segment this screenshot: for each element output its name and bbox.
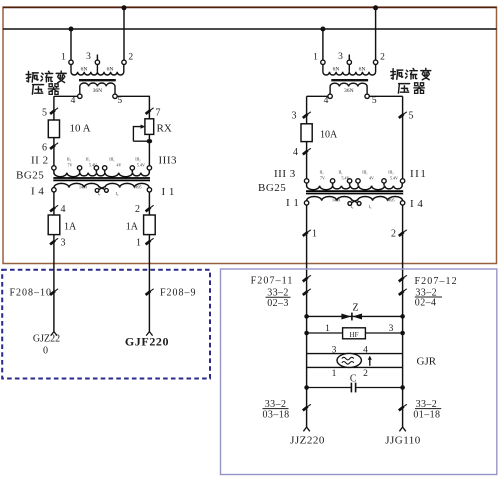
svg-text:36N: 36N: [344, 88, 354, 94]
filter HF body: [343, 328, 366, 339]
svg-text:F208–10: F208–10: [9, 288, 52, 299]
svg-text:GJZ22: GJZ22: [33, 334, 60, 345]
svg-text:I 4: I 4: [410, 198, 423, 210]
svg-text:3: 3: [338, 52, 343, 62]
svg-text:III₁: III₁: [362, 170, 368, 175]
fuse FU4 10A body: [301, 124, 312, 142]
wire bus L1 to choke T2 terminal 2 (right): [375, 8, 377, 60]
rheostat RX body: [145, 119, 154, 135]
svg-text:7V: 7V: [320, 176, 325, 181]
svg-text:III3: III3: [159, 155, 178, 167]
svg-text:4: 4: [61, 204, 66, 215]
test point 2: [146, 205, 154, 211]
svg-text:4: 4: [71, 96, 76, 106]
svg-text:II₁: II₁: [86, 157, 91, 162]
test point 1: [146, 238, 154, 244]
svg-text:III₂: III₂: [135, 157, 141, 162]
test point 1 (right circuit): [303, 230, 311, 236]
wire rung GJR bottom: [307, 366, 403, 368]
BG25 right secondary end terminal circles: [304, 201, 404, 205]
outer brown frame box: [3, 7, 497, 264]
BG25 right primary terminal circles: [304, 179, 404, 183]
dashed blue box (left lower): [2, 270, 210, 379]
wire rung for suppressor Z: [307, 315, 403, 317]
wire rung for capacitor C: [307, 387, 351, 389]
svg-text:5.4V: 5.4V: [390, 176, 398, 181]
test point 4: [50, 205, 58, 211]
svg-text:II₂: II₂: [67, 157, 72, 162]
wire bus L2 to choke T2 terminal 1 (right): [322, 29, 324, 60]
svg-text:1: 1: [136, 238, 141, 249]
svg-text:II₁: II₁: [338, 170, 343, 175]
svg-text:5.4V: 5.4V: [342, 176, 350, 181]
test point 3 (right circuit): [303, 112, 311, 118]
test point 5: [50, 108, 58, 114]
wire BG25R I4 down into relay box: [402, 205, 404, 427]
svg-text:2: 2: [135, 204, 140, 215]
svg-text:JJG110: JJG110: [385, 435, 421, 447]
wire choke T1 pin4 to left branch: [54, 95, 78, 97]
svg-text:I 1: I 1: [286, 197, 299, 209]
BG25 left winding designator labels: [16, 155, 177, 198]
choke T2 secondary terminal circles pins 4,5: [328, 94, 369, 98]
BG25 left secondary winding right half: [105, 183, 149, 187]
BG25 left secondary crossover X: [97, 186, 106, 190]
choke T2 secondary winding 36N: [330, 83, 367, 94]
second bus wire (net L2): [3, 28, 497, 30]
wire choke T1 pin5 to right branch: [117, 95, 150, 97]
svg-text:III₁: III₁: [109, 157, 115, 162]
wire RX wiper to bottom node: [133, 140, 149, 142]
choke T2 winding value labels 6N 6N 36N: [333, 66, 366, 94]
junction HF left: [304, 331, 309, 336]
wire right branch down to BG25R pin II1: [402, 96, 404, 178]
svg-text:3: 3: [332, 345, 337, 355]
svg-text:6N: 6N: [81, 66, 88, 72]
BG25 right secondary crossover X: [350, 200, 359, 204]
test point 33-2/02-4: [399, 289, 407, 295]
svg-text:I₃: I₃: [369, 204, 372, 209]
fuse FU1 10A body: [48, 120, 59, 138]
svg-text:4V: 4V: [117, 163, 122, 168]
junction HF right: [400, 331, 405, 336]
svg-text:6N: 6N: [333, 66, 340, 72]
svg-text:HF: HF: [350, 331, 359, 339]
BG25 right tiny winding labels: [319, 170, 398, 209]
choke T2 core: [331, 79, 368, 81]
test point F208-9: [146, 289, 154, 295]
test point F208-10: [50, 289, 58, 295]
svg-text:JJZ220: JJZ220: [290, 435, 325, 447]
BG25 left primary intermediate stems: [80, 170, 133, 173]
svg-text:5.4V: 5.4V: [89, 163, 97, 168]
fuse FU2 1A body: [48, 215, 60, 235]
wire right branch down to RX: [148, 96, 150, 119]
svg-text:II 2: II 2: [31, 155, 49, 167]
svg-text:GJF220: GJF220: [125, 335, 169, 349]
test point 7: [146, 108, 154, 114]
svg-text:1499: 1499: [79, 185, 87, 190]
choke T2 terminal circles pins 1,3,2: [321, 60, 378, 64]
junction node RX bottom: [147, 139, 153, 143]
svg-text:02–3: 02–3: [267, 298, 289, 309]
svg-text:BG25: BG25: [258, 182, 286, 194]
svg-text:1: 1: [332, 369, 337, 379]
choke transformer T2 (right) primary winding: [323, 65, 376, 75]
BG25 right secondary winding left half: [307, 196, 352, 200]
svg-text:I 1: I 1: [162, 186, 175, 198]
junction on top bus at x=124: [122, 5, 127, 10]
junction on top bus at x=375.6: [373, 5, 378, 10]
svg-text:2: 2: [380, 53, 385, 63]
svg-text:03–18: 03–18: [263, 410, 290, 421]
choke T1 center stem pin 3: [96, 65, 98, 72]
svg-text:5.4V: 5.4V: [137, 163, 145, 168]
wire choke T2 pin5 to right branch: [369, 95, 402, 97]
BG25 left secondary end terminal circles: [52, 188, 152, 192]
connector chevron JJZ220: [303, 427, 309, 431]
svg-text:BG25: BG25: [16, 169, 44, 181]
rheostat RX wiper arm with arrow: [133, 127, 141, 142]
svg-text:3: 3: [86, 52, 91, 62]
wire BG25R I1 down into relay box: [306, 205, 308, 427]
suppressor Z symbol: [341, 314, 351, 320]
solid blue relay box (right lower): [221, 269, 497, 475]
choke T1 core: [79, 79, 116, 81]
svg-text:5: 5: [372, 96, 377, 106]
svg-text:1A: 1A: [126, 222, 139, 233]
junction C left: [304, 385, 309, 390]
GJR pin labels 3 4 1 2: [332, 345, 369, 379]
svg-text:GJR: GJR: [417, 356, 437, 368]
wire choke T2 pin4 to left branch: [307, 95, 328, 97]
relay GJR actuation arrow: [369, 359, 371, 366]
svg-text:RX: RX: [157, 123, 172, 135]
svg-text:I₂: I₂: [351, 204, 354, 209]
svg-text:4: 4: [324, 96, 329, 106]
wire rung for filter HF: [307, 332, 403, 334]
svg-text:01–18: 01–18: [413, 409, 440, 420]
svg-text:7V: 7V: [68, 163, 73, 168]
relay GJR AC waves: [342, 357, 354, 364]
svg-text:II1: II1: [410, 168, 427, 180]
stub terminal 3 of choke T2: [348, 55, 350, 61]
stub terminal 3 of choke T1: [96, 55, 98, 61]
wire BG25 I1 down through 1A fuse to GJF220: [148, 192, 150, 332]
junction C right: [400, 385, 405, 390]
svg-text:10A: 10A: [320, 130, 338, 141]
transformer BG25 (right) primary winding row: [307, 183, 403, 190]
svg-text:F207–12: F207–12: [415, 276, 458, 287]
label 扼流变压器 (left): [26, 71, 66, 94]
svg-text:1499: 1499: [332, 198, 340, 203]
svg-text:1: 1: [61, 53, 66, 63]
BG25 right core bars: [306, 190, 403, 192]
test point F207-11: [303, 275, 311, 281]
junction on second bus at x=71: [69, 27, 74, 32]
svg-text:2: 2: [363, 369, 368, 379]
svg-text:0: 0: [43, 346, 48, 357]
test point 33-2/02-3: [303, 289, 311, 295]
wire BG25 I4 down through 1A fuse to GJZ220: [53, 192, 55, 332]
test point F207-12: [399, 275, 407, 281]
BG25 left tiny winding labels: [67, 157, 145, 196]
BG25 right secondary winding right half: [358, 197, 403, 201]
choke T1 secondary winding 36N: [80, 83, 115, 94]
svg-text:1495: 1495: [387, 198, 395, 203]
test point 33-2/01-18: [399, 404, 407, 410]
BG25 left core bars: [53, 177, 150, 179]
svg-text:7: 7: [156, 108, 161, 119]
svg-text:5: 5: [42, 108, 47, 119]
test point 2 (right circuit): [399, 230, 407, 236]
BG25 right primary intermediate stems: [333, 183, 384, 186]
svg-text:6N: 6N: [359, 66, 366, 72]
svg-text:F207–11: F207–11: [251, 276, 294, 287]
fuse FU3 1A body: [144, 215, 156, 235]
junction on second bus at x=322.9: [320, 27, 325, 32]
test point 33-2/03-18: [303, 404, 311, 410]
svg-text:1: 1: [325, 324, 330, 334]
test point 3: [50, 238, 58, 244]
junction Z right: [400, 314, 405, 319]
svg-text:III₂: III₂: [388, 170, 394, 175]
test point 5 (right circuit): [399, 112, 407, 118]
svg-text:33–2: 33–2: [267, 287, 289, 298]
svg-text:36N: 36N: [93, 88, 103, 94]
svg-text:I₃: I₃: [116, 191, 119, 196]
test point 4 (right circuit): [303, 148, 311, 154]
BG25 left secondary center tap circles: [95, 189, 108, 193]
svg-text:2: 2: [391, 229, 396, 240]
svg-text:C: C: [350, 374, 357, 385]
wire left branch down to BG25R pin III3: [306, 96, 308, 178]
svg-text:10 A: 10 A: [70, 123, 91, 135]
svg-text:1495: 1495: [134, 185, 142, 190]
test point 6: [50, 143, 58, 149]
wire left branch down to BG25 pin II2: [53, 96, 55, 165]
svg-text:3: 3: [61, 238, 66, 249]
connector chevron GJZ220: [51, 332, 57, 336]
wire bus L1 to choke T1 terminal 2 (left): [123, 8, 125, 60]
svg-text:2: 2: [128, 53, 133, 63]
svg-text:I 4: I 4: [31, 186, 44, 198]
svg-text:4: 4: [363, 345, 368, 355]
svg-text:1: 1: [312, 229, 317, 240]
transformer BG25 (left) primary winding row: [54, 170, 149, 177]
svg-text:02–4: 02–4: [415, 298, 437, 309]
svg-text:1: 1: [313, 53, 318, 63]
svg-text:Z: Z: [352, 302, 358, 313]
svg-text:III 3: III 3: [274, 168, 296, 180]
choke T2 center stem pin 3: [348, 65, 350, 72]
capacitor C plates: [350, 383, 352, 393]
BG25 left primary terminal circles: [52, 166, 152, 170]
svg-text:3: 3: [292, 111, 297, 122]
svg-text:II₂: II₂: [319, 170, 324, 175]
choke transformer T1 (left) primary winding: [71, 65, 124, 75]
svg-text:5: 5: [117, 96, 122, 106]
svg-text:4V: 4V: [369, 176, 374, 181]
choke T1 secondary terminal circles pins 4,5: [78, 94, 118, 98]
connector chevron GJF220: [146, 332, 152, 336]
svg-text:1A: 1A: [64, 222, 77, 233]
label 扼流变压器 (right): [391, 68, 431, 93]
wire RX bottom to BG25 pin III3: [148, 134, 150, 165]
relay GJR coil body: [337, 353, 361, 367]
svg-text:I₂: I₂: [98, 191, 101, 196]
choke T2 pin number labels: [313, 52, 385, 106]
choke T1 winding value labels 6N 6N 36N: [81, 66, 114, 94]
BG25 right winding designator labels: [258, 168, 427, 210]
svg-text:4: 4: [293, 147, 298, 158]
wire bus L2 to choke T1 terminal 1 (left): [70, 29, 72, 60]
svg-text:6: 6: [42, 143, 47, 154]
svg-text:5: 5: [409, 111, 414, 122]
top bus wire (net L1): [3, 7, 497, 9]
BG25 left secondary winding left half: [54, 183, 99, 187]
connector chevron JJG110: [399, 427, 405, 431]
svg-text:F208–9: F208–9: [160, 288, 197, 299]
choke T1 terminal circles pins 1,3,2: [69, 60, 126, 64]
BG25 right secondary center tap circles: [348, 202, 361, 206]
junction Z left: [304, 314, 309, 319]
choke T1 pin number labels: [61, 52, 133, 106]
wire rung GJR top: [307, 353, 403, 355]
svg-text:6N: 6N: [107, 66, 114, 72]
svg-text:3: 3: [389, 324, 394, 334]
